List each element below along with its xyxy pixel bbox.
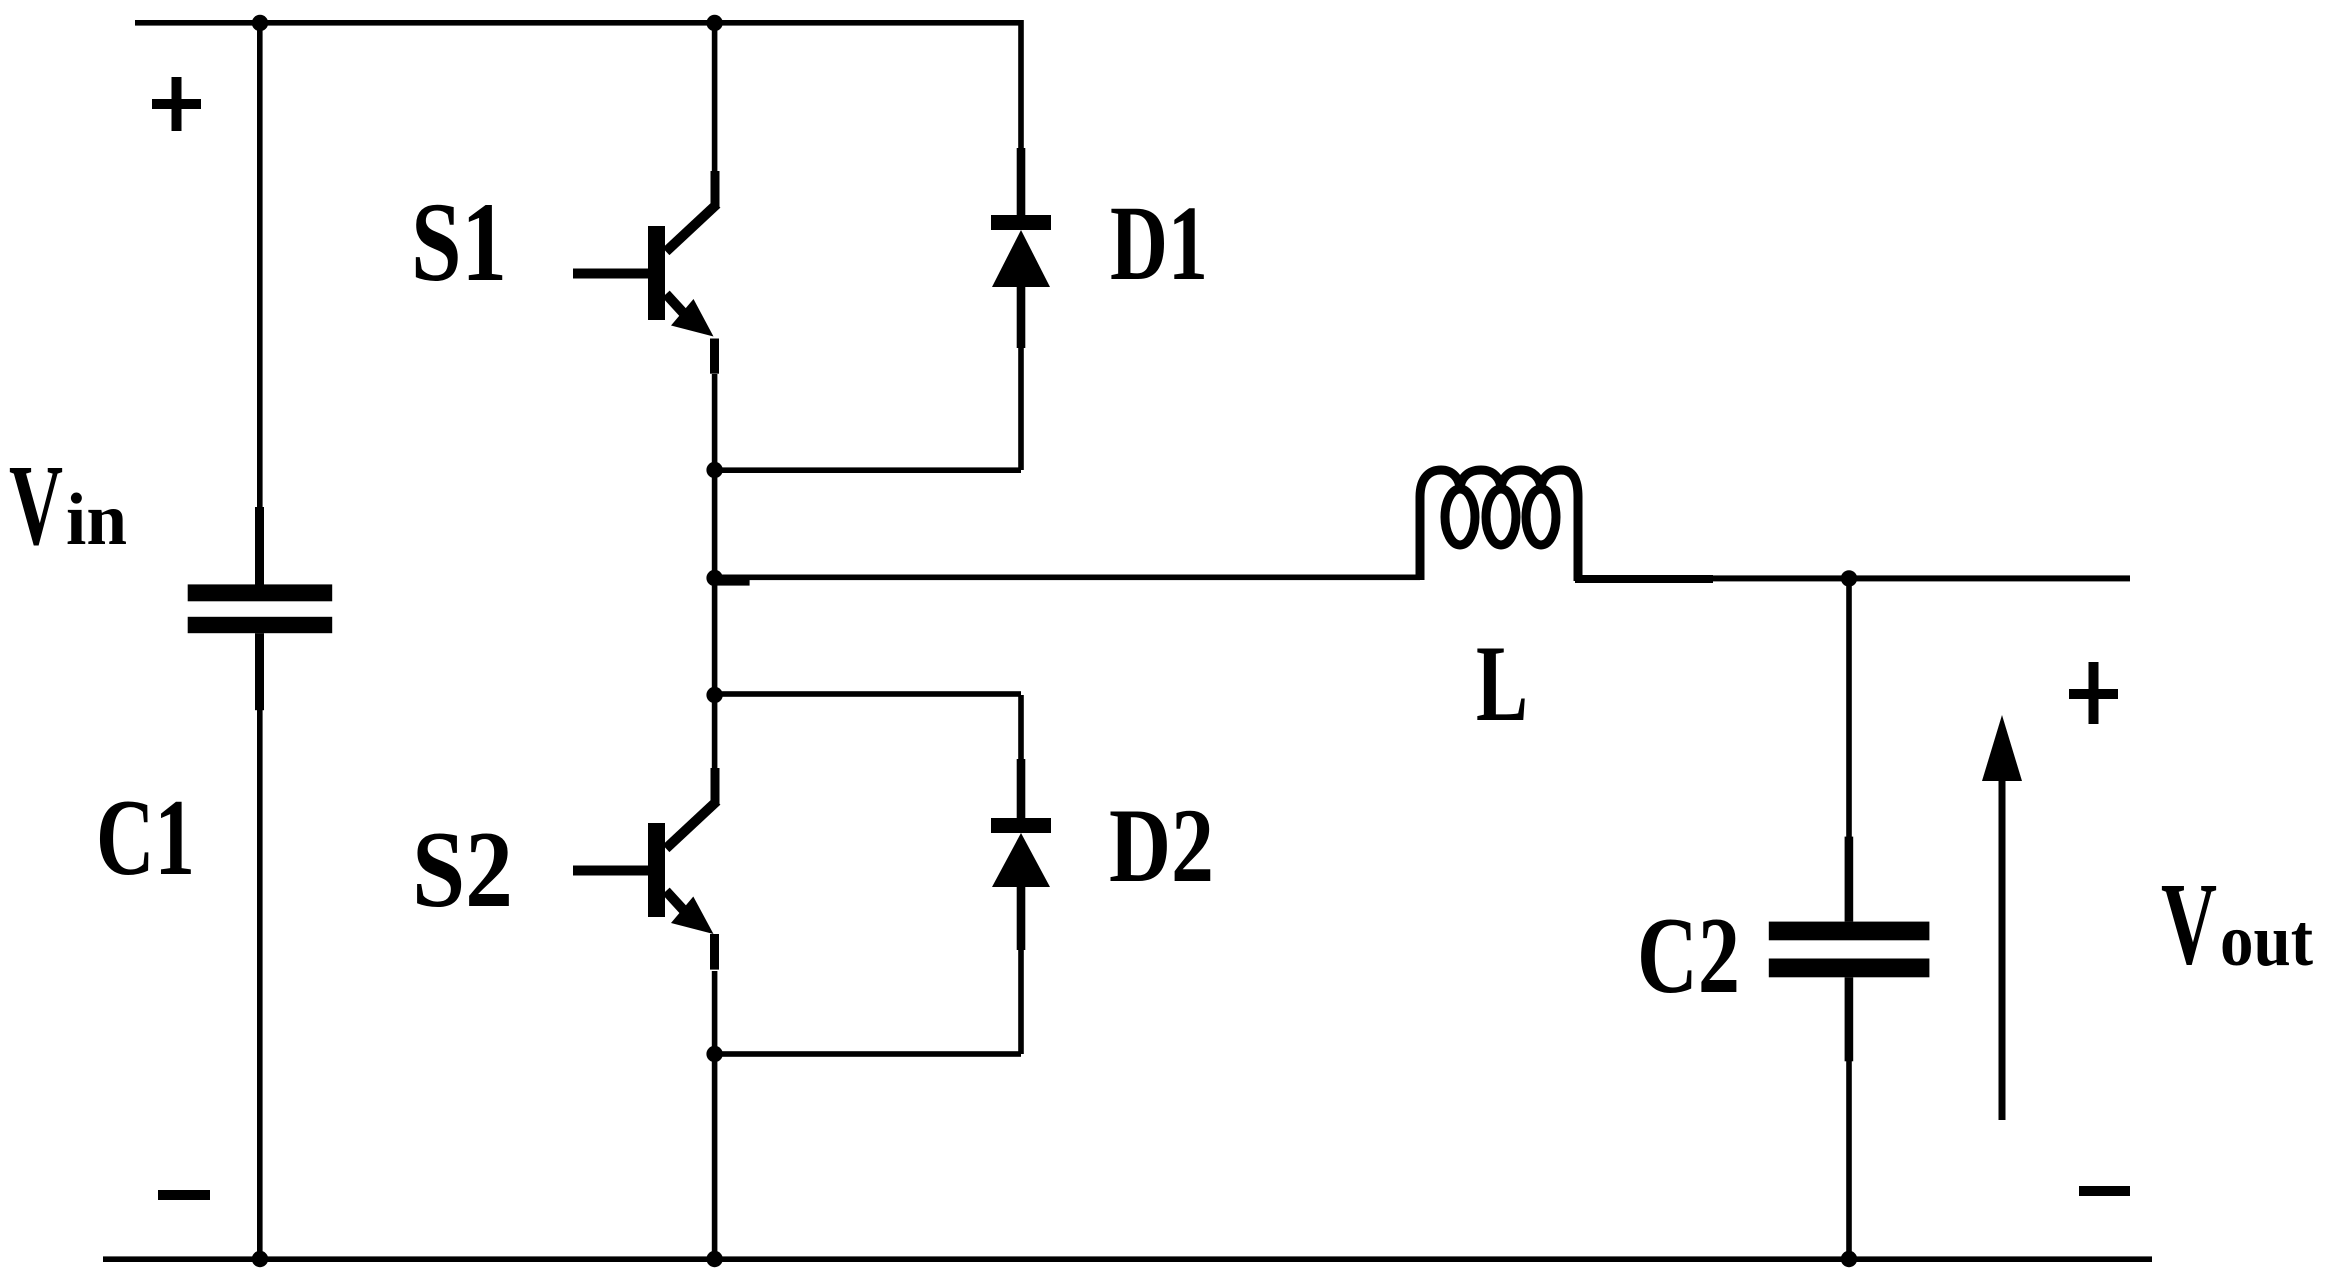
wire C2 bottom lead to bottom bus [1846,1061,1852,1259]
wire C2 top lead vertical [1846,578,1852,837]
wire node A to output node B [712,470,718,578]
svg-text:S1: S1 [411,180,507,305]
svg-text:S2: S2 [412,809,513,930]
arrow Vout polarity [1982,715,2022,1120]
svg-text:C1: C1 [96,777,195,898]
label L [1476,623,1528,744]
node junction bottom of C2 branch [1841,1251,1857,1267]
wire left vertical lower (C1 to bottom bus) [257,710,263,1259]
wire node C to D2 cathode (horizontal) [715,691,1021,697]
label S1 [411,180,507,305]
diode D1 [991,148,1051,348]
label C1 [96,777,195,898]
node A: S1 emitter / D1 anode junction [706,462,722,478]
label - (Vin negative) [158,1190,210,1200]
label - (Vout negative) [2079,1186,2130,1196]
transistor S2 [573,768,720,970]
wire node C to S2 collector [712,695,718,771]
label S2 [412,809,513,930]
wire node A to D1 anode (horizontal) [715,467,1021,473]
node junction bottom of C1 branch [252,1251,268,1267]
wire middle vertical: top bus to S1 collector [712,20,718,171]
capacitor C2 [1769,837,1930,1062]
node junction top of C1 branch [252,15,268,31]
wire bottom bus [103,1256,2152,1262]
node D: S2 emitter / D2 anode junction [706,1046,722,1062]
wire node D to D2 anode (horizontal) [715,1051,1021,1057]
wire top bus from Vin+ to D1 cathode corner [135,20,1023,26]
node C: S2 collector / D2 cathode junction [706,687,722,703]
wire D1 cathode vertical from top bus [1018,20,1024,150]
label Vin [9,442,127,570]
transistor S1 [573,171,720,374]
inductor L [1420,470,1578,581]
svg-text:D1: D1 [1110,185,1208,303]
wire node D down to bottom bus [712,1054,718,1259]
label D1 [1110,185,1208,303]
wire D1 anode down to node A wire [1018,348,1024,470]
wire D2 anode down to node D wire [1018,950,1024,1054]
wire left vertical upper (top bus to C1) [257,20,263,507]
wire S1 emitter to node A [712,374,718,470]
label C2 [1637,895,1740,1016]
svg-text:C2: C2 [1637,895,1740,1016]
wire inductor L to jog [1575,575,1713,583]
node junction top of S1 collector [706,15,722,31]
node E: output / C2 top junction [1841,570,1857,586]
svg-text:V: V [9,442,63,570]
label + (Vin positive) [152,77,201,131]
svg-text:out: out [2220,900,2313,982]
svg-text:V: V [2161,858,2217,989]
label + (Vout positive) [2069,662,2118,724]
node B: phase output node [706,570,722,586]
wire stub at node B [715,580,750,586]
diode D2 [991,759,1051,950]
label D2 [1109,787,1214,904]
wire D2 cathode vertical from node C wire [1018,695,1024,761]
label Vout [2161,858,2313,989]
wire S2 emitter to node D [712,971,718,1054]
svg-text:D2: D2 [1109,787,1214,904]
wire node B down to node C [712,578,718,695]
svg-text:L: L [1476,623,1528,744]
wire jog to output right end [1672,575,2130,581]
node junction bottom of S2 branch [706,1251,722,1267]
capacitor C1 [188,507,333,710]
wire node B to inductor L [715,575,1420,581]
svg-text:in: in [66,479,127,561]
